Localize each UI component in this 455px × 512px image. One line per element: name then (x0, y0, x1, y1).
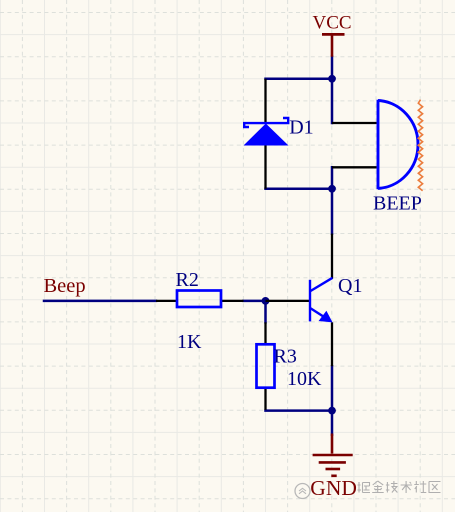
svg-text:1K: 1K (177, 331, 202, 353)
svg-text:10K: 10K (287, 368, 322, 390)
svg-text:R3: R3 (274, 346, 297, 368)
svg-text:D1: D1 (289, 117, 313, 139)
svg-text:GND: GND (310, 476, 357, 500)
svg-text:R2: R2 (176, 269, 199, 291)
svg-text:VCC: VCC (313, 13, 352, 34)
svg-text:BEEP: BEEP (373, 193, 422, 215)
svg-text:Beep: Beep (44, 275, 86, 297)
svg-text:Q1: Q1 (338, 275, 362, 297)
